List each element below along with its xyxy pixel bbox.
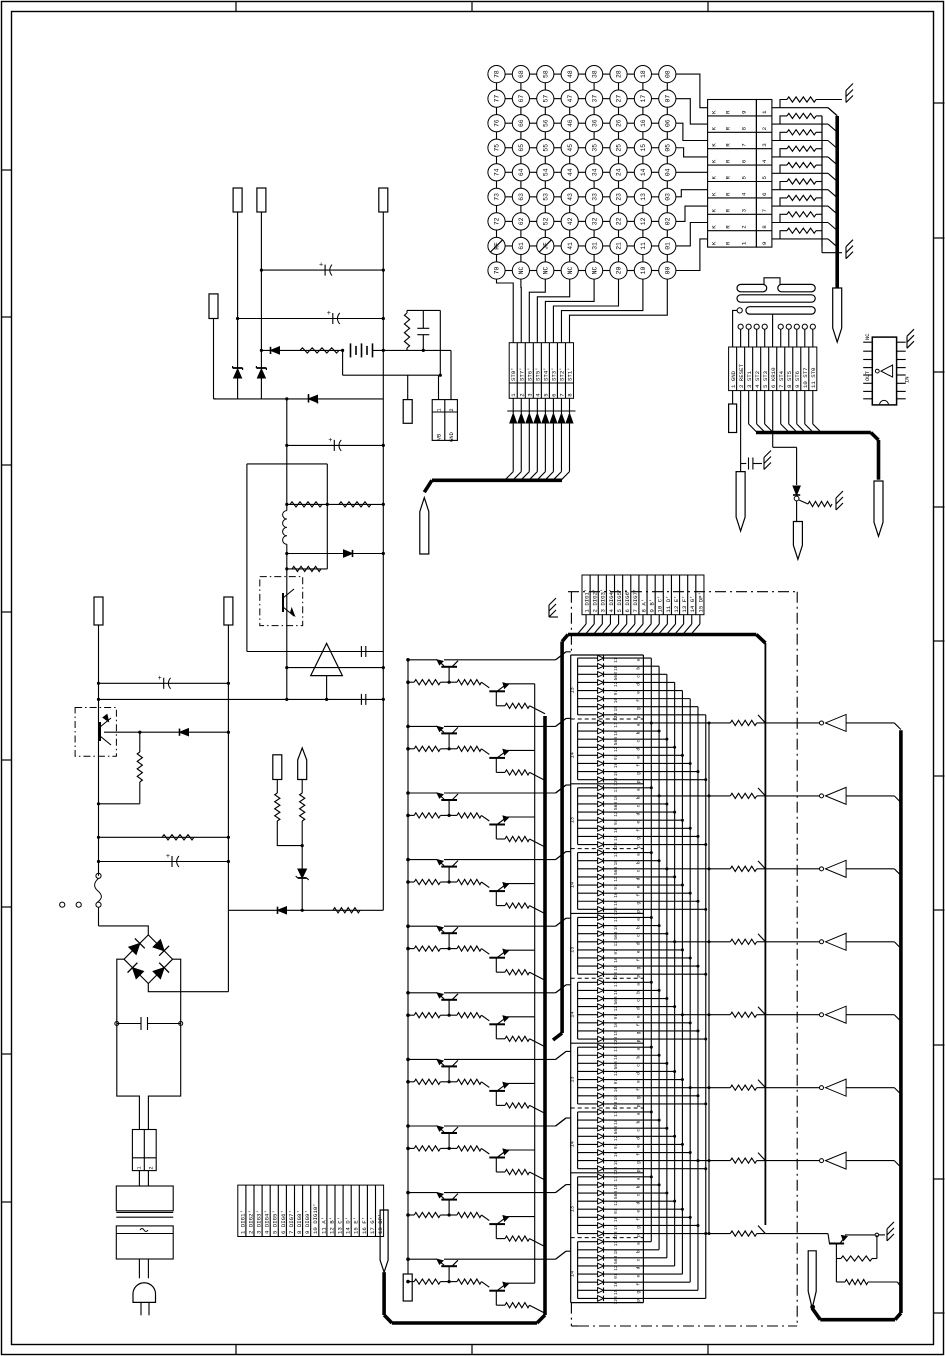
svg-text:18: 18 <box>613 730 619 736</box>
svg-text:18: 18 <box>613 989 619 995</box>
svg-text:K: K <box>711 225 718 229</box>
svg-text:36: 36 <box>591 119 598 127</box>
svg-text:R: R <box>725 208 732 212</box>
svg-text:14: 14 <box>640 168 647 176</box>
left rail P7 extension <box>227 910 229 991</box>
svg-text:68: 68 <box>518 70 525 78</box>
svg-text:b: b <box>636 1056 642 1059</box>
ground G2 <box>846 240 853 259</box>
key switch 72 r6c0 <box>488 213 505 230</box>
svg-text:12: 12 <box>613 1006 619 1012</box>
svg-text:67: 67 <box>518 95 525 103</box>
zener ZD2 <box>256 366 266 378</box>
svg-text:g: g <box>637 966 642 969</box>
connector pin P5 <box>403 375 412 423</box>
svg-text:10 DIG10': 10 DIG10' <box>312 1203 319 1234</box>
key switch 63 r5c1 <box>512 188 529 205</box>
svg-text:25: 25 <box>616 144 623 152</box>
driver column verticals <box>534 684 536 1283</box>
svg-text:a: a <box>637 1242 642 1245</box>
svg-text:GND: GND <box>449 432 455 442</box>
svg-text:97: 97 <box>613 1143 619 1149</box>
key switch 13 r5c6 <box>634 188 651 205</box>
svg-text:p: p <box>637 975 642 978</box>
svg-text:123: 123 <box>613 1166 619 1175</box>
resistor R24 digit row 5 <box>682 1007 819 1018</box>
svg-text:p: p <box>637 845 642 848</box>
transistor pair Q7 Q8 with resistors <box>406 785 566 847</box>
op-amp U1 buffer IC <box>863 333 910 405</box>
LED digit display 14 group 4 <box>570 849 708 916</box>
AC plug PL1 <box>133 1283 156 1316</box>
svg-text:11 D': 11 D' <box>665 595 672 612</box>
smoothing loop capacitor C8 <box>115 959 229 1129</box>
svg-text:f: f <box>636 764 642 767</box>
svg-text:568: 568 <box>613 1255 619 1264</box>
key switch 06 r2c7 <box>659 115 676 132</box>
connector ST strip <box>509 343 573 399</box>
svg-text:8 ST5: 8 ST5 <box>786 370 793 388</box>
svg-text:VB: VB <box>437 433 443 440</box>
key switch 48 r0c3 <box>561 66 578 83</box>
transistor Q1 regulator <box>260 577 303 626</box>
resistor R21 digit row 2 <box>659 788 819 799</box>
svg-text:+: + <box>166 853 170 861</box>
zener ZD1 <box>233 366 243 399</box>
svg-text:13: 13 <box>570 1206 576 1212</box>
svg-text:123: 123 <box>613 972 619 981</box>
power switch SW1 <box>60 873 149 935</box>
svg-text:R: R <box>725 143 732 147</box>
svg-text:15: 15 <box>640 144 647 152</box>
svg-text:54: 54 <box>543 168 550 176</box>
LED digit display 13 group 5 <box>570 913 708 980</box>
svg-text:c: c <box>637 1193 642 1196</box>
svg-text:35: 35 <box>591 144 598 152</box>
key switch 07 r1c7 <box>659 90 676 107</box>
bridge rectifier BR1 <box>124 935 173 984</box>
feedback box wire <box>247 464 327 652</box>
key switch 67 r1c1 <box>512 90 529 107</box>
svg-text:16: 16 <box>613 1152 619 1158</box>
svg-text:p: p <box>637 1104 642 1107</box>
main rail vertical <box>286 399 288 652</box>
key switch 33 r5c4 <box>586 188 603 205</box>
resistor R6 <box>97 732 142 805</box>
svg-text:p: p <box>637 715 642 718</box>
svg-text:e: e <box>637 1210 642 1213</box>
svg-text:p: p <box>637 1169 642 1172</box>
svg-text:18: 18 <box>613 1054 619 1060</box>
svg-text:e: e <box>637 1080 642 1083</box>
svg-text:55: 55 <box>543 144 550 152</box>
svg-text:568: 568 <box>613 931 619 940</box>
svg-text:28: 28 <box>616 70 623 78</box>
svg-text:04: 04 <box>665 168 672 176</box>
diode D5 resistor R8 <box>228 907 383 914</box>
svg-text:11: 11 <box>613 787 619 793</box>
diode D4 <box>104 729 230 736</box>
resistor R26 digit row 7 <box>698 1153 820 1164</box>
svg-text:f: f <box>636 1218 642 1221</box>
svg-text:+: + <box>327 310 331 318</box>
inverter U6 <box>820 1006 901 1023</box>
svg-text:18: 18 <box>613 1184 619 1190</box>
svg-text:b: b <box>636 1120 642 1123</box>
key switch 77 r1c0 <box>488 90 505 107</box>
svg-text:22: 22 <box>616 217 623 225</box>
svg-text:15: 15 <box>613 771 619 777</box>
key switch 43 r5c3 <box>561 188 578 205</box>
key switch 56 r2c2 <box>537 115 554 132</box>
LED digit display 13 group 3 <box>570 784 708 851</box>
svg-text:16: 16 <box>613 1022 619 1028</box>
key switch 66 r2c1 <box>512 115 529 132</box>
key switch 17 r1c6 <box>634 90 651 107</box>
svg-text:f: f <box>636 1153 642 1156</box>
svg-text:12: 12 <box>613 876 619 882</box>
svg-text:123: 123 <box>613 907 619 916</box>
inverter U4 <box>820 860 901 877</box>
svg-text:568: 568 <box>613 866 619 875</box>
svg-text:g: g <box>637 1161 642 1164</box>
svg-text:12: 12 <box>613 811 619 817</box>
svg-text:07: 07 <box>665 95 672 103</box>
svg-text:c: c <box>637 999 642 1002</box>
svg-text:16: 16 <box>613 1087 619 1093</box>
svg-text:d: d <box>636 1202 642 1205</box>
svg-text:NC: NC <box>864 333 871 340</box>
keyboard matrix wires <box>497 74 668 270</box>
svg-text:IN: IN <box>904 376 911 383</box>
svg-text:5: 5 <box>741 176 748 180</box>
svg-text:c: c <box>637 934 642 937</box>
svg-text:15: 15 <box>613 1160 619 1166</box>
svg-text:18: 18 <box>613 1249 619 1255</box>
key switch 65 r3c1 <box>512 139 529 156</box>
svg-text:15: 15 <box>613 1095 619 1101</box>
svg-text:63: 63 <box>518 193 525 201</box>
svg-text:15 DP': 15 DP' <box>697 592 704 612</box>
svg-text:64: 64 <box>518 168 525 176</box>
key switch 24 r4c5 <box>610 164 627 181</box>
svg-text:NC: NC <box>518 267 525 275</box>
svg-text:g: g <box>637 837 642 840</box>
capacitor C4 <box>285 437 385 451</box>
svg-text:15: 15 <box>613 835 619 841</box>
diode D2 wire <box>214 394 384 404</box>
LED digit display 14 group 6 <box>570 978 708 1045</box>
svg-text:123: 123 <box>613 777 619 786</box>
key switch 45 r3c3 <box>561 139 578 156</box>
connector pins top <box>233 188 388 910</box>
svg-text:K: K <box>711 192 718 196</box>
svg-text:75: 75 <box>494 144 501 152</box>
connector pin P8 resistor R9 <box>273 755 302 846</box>
svg-text:d: d <box>636 812 642 815</box>
svg-text:2 RESET: 2 RESET <box>738 364 745 388</box>
svg-text:10: 10 <box>640 267 647 275</box>
svg-text:+: + <box>158 675 162 683</box>
svg-text:123: 123 <box>613 842 619 851</box>
svg-text:15: 15 <box>613 965 619 971</box>
resistors R3 R4 <box>285 502 385 507</box>
svg-text:1: 1 <box>136 1166 142 1169</box>
svg-text:e: e <box>637 950 642 953</box>
svg-text:K: K <box>711 143 718 147</box>
svg-text:f: f <box>636 1283 642 1286</box>
svg-text:13: 13 <box>570 947 576 953</box>
fuse F1 <box>132 1130 156 1187</box>
svg-text:g: g <box>637 1291 642 1294</box>
svg-text:11: 11 <box>613 1046 619 1052</box>
svg-text:13: 13 <box>640 193 647 201</box>
connector CN3 VB GND <box>432 400 457 442</box>
svg-text:a: a <box>637 1112 642 1115</box>
svg-text:NC: NC <box>567 267 574 275</box>
svg-text:37: 37 <box>591 95 598 103</box>
svg-text:10 C': 10 C' <box>657 595 664 612</box>
svg-text:12: 12 <box>613 1135 619 1141</box>
svg-text:16: 16 <box>613 762 619 768</box>
svg-text:7: 7 <box>558 393 565 396</box>
svg-text:3 DIG3': 3 DIG3' <box>255 1210 262 1234</box>
bus vertical mid <box>764 643 766 1225</box>
svg-text:14: 14 <box>570 1141 576 1147</box>
key switch NC r8c3 <box>561 262 578 279</box>
jumper wire W2 <box>737 295 815 302</box>
svg-text:c: c <box>637 804 642 807</box>
svg-text:6: 6 <box>761 192 768 196</box>
svg-text:R: R <box>725 241 732 245</box>
transistor Q23 output <box>820 1233 886 1282</box>
svg-text:c: c <box>637 675 642 678</box>
diode D3 <box>285 550 385 557</box>
wire VB GND to CN3 <box>343 350 451 399</box>
svg-text:NC: NC <box>591 267 598 275</box>
svg-text:c: c <box>637 1129 642 1132</box>
key switch 04 r4c7 <box>659 164 676 181</box>
transistor pair Q15 Q16 with resistors <box>406 1051 566 1113</box>
svg-text:b: b <box>636 861 642 864</box>
svg-text:72: 72 <box>494 217 501 225</box>
LED digit display 13 group 1 <box>570 655 706 721</box>
svg-text:b: b <box>636 731 642 734</box>
svg-text:3: 3 <box>741 208 748 212</box>
svg-text:97: 97 <box>613 690 619 696</box>
svg-text:73: 73 <box>494 193 501 201</box>
svg-text:15: 15 <box>613 1289 619 1295</box>
svg-text:g: g <box>637 707 642 710</box>
wire box bottom <box>247 646 383 657</box>
transistor pair Q19 Q20 with resistors <box>406 1185 566 1247</box>
svg-text:4: 4 <box>761 159 768 163</box>
svg-text:d: d <box>636 748 642 751</box>
amplifier triangle A1 <box>285 643 385 699</box>
svg-text:16: 16 <box>613 1281 619 1287</box>
svg-text:568: 568 <box>613 737 619 746</box>
svg-text:R: R <box>725 192 732 196</box>
svg-text:15: 15 <box>613 900 619 906</box>
key switch 62 r6c1 <box>512 213 529 230</box>
svg-text:g: g <box>637 902 642 905</box>
key switch 36 r2c4 <box>586 115 603 132</box>
zener ZD3 <box>296 846 309 911</box>
svg-text:06: 06 <box>665 119 672 127</box>
svg-text:76: 76 <box>494 119 501 127</box>
svg-text:61: 61 <box>518 242 525 250</box>
svg-text:2: 2 <box>761 126 768 130</box>
thick bus display left <box>553 642 562 1041</box>
svg-text:ST2': ST2' <box>558 367 565 381</box>
svg-text:K: K <box>711 176 718 180</box>
svg-text:e: e <box>637 1015 642 1018</box>
spark gap arrows <box>507 398 575 471</box>
svg-text:e: e <box>637 756 642 759</box>
svg-text:123: 123 <box>613 712 619 721</box>
resistor R28 <box>836 1279 901 1287</box>
transistor pair Q11 Q12 with resistors <box>406 918 566 980</box>
svg-text:7 DIG7': 7 DIG7' <box>288 1210 295 1234</box>
stubs driver to display <box>556 652 571 1259</box>
svg-text:13: 13 <box>570 687 576 693</box>
svg-text:d: d <box>636 683 642 686</box>
svg-text:34: 34 <box>591 168 598 176</box>
LED digit display 14 group 10 <box>570 1238 706 1305</box>
svg-text:65: 65 <box>518 144 525 152</box>
svg-text:2: 2 <box>518 393 525 397</box>
transformer T1 <box>116 1186 173 1278</box>
svg-text:f: f <box>636 894 642 897</box>
key switch 02 r6c7 <box>659 213 676 230</box>
thick bus driver to display <box>384 716 545 1323</box>
svg-text:c: c <box>637 869 642 872</box>
key switch 16 r2c6 <box>634 115 651 132</box>
ground G7 <box>887 1222 894 1241</box>
svg-text:b: b <box>636 991 642 994</box>
svg-text:6 DIG6': 6 DIG6' <box>280 1210 287 1234</box>
svg-text:R: R <box>725 176 732 180</box>
resistor R27 digit row 8 <box>706 1226 820 1237</box>
key switch 10 r8c6 <box>634 262 651 279</box>
svg-text:K: K <box>711 241 718 245</box>
svg-text:1: 1 <box>510 393 517 397</box>
svg-text:14 G': 14 G' <box>689 595 696 612</box>
svg-text:66: 66 <box>518 119 525 127</box>
svg-text:18: 18 <box>613 1119 619 1125</box>
svg-text:f: f <box>636 958 642 961</box>
key switch 41 r7c3 <box>561 237 578 254</box>
key switch 11 r7c6 <box>634 237 651 254</box>
key switch RF r7c0 <box>488 237 505 254</box>
connector pin J-KB <box>874 481 883 536</box>
key switch 25 r3c5 <box>610 139 627 156</box>
svg-text:c: c <box>637 1258 642 1261</box>
svg-text:56: 56 <box>543 119 550 127</box>
driver column bus <box>407 660 409 1274</box>
svg-text:p: p <box>637 1299 642 1302</box>
svg-text:12 E': 12 E' <box>673 595 680 612</box>
key switch 05 r3c7 <box>659 139 676 156</box>
svg-text:16: 16 <box>613 698 619 704</box>
transistor pair Q21 Q22 with resistors <box>406 1251 566 1313</box>
capacitor C2 <box>236 310 385 324</box>
svg-text:12: 12 <box>613 1200 619 1206</box>
svg-text:15: 15 <box>613 1030 619 1036</box>
svg-text:46: 46 <box>567 119 574 127</box>
resistor R2 capacitor C3 parallel <box>404 310 440 375</box>
resistor R7 <box>97 835 230 840</box>
key switch 35 r3c4 <box>586 139 603 156</box>
svg-text:ST5': ST5' <box>534 367 541 381</box>
thick bus ST to pin <box>424 472 569 493</box>
key switch 08 r0c7 <box>659 66 676 83</box>
connector pin J-DISP <box>808 1251 816 1310</box>
capacitor C7 <box>97 853 230 867</box>
svg-text:14: 14 <box>570 1271 576 1277</box>
wires matrix columns to KR box <box>676 74 708 270</box>
svg-text:41: 41 <box>567 242 574 250</box>
wires matrix rows to ST connector <box>497 279 668 343</box>
svg-text:21: 21 <box>616 242 623 250</box>
svg-text:4 ST2: 4 ST2 <box>754 370 761 388</box>
svg-text:9 B': 9 B' <box>649 599 656 613</box>
connector CN2 11pin <box>729 347 818 391</box>
svg-text:5 DIG5': 5 DIG5' <box>616 589 623 613</box>
svg-text:p: p <box>637 1039 642 1042</box>
svg-text:8: 8 <box>761 225 768 229</box>
svg-text:14: 14 <box>570 1012 576 1018</box>
jumper wires W1 <box>737 278 815 292</box>
svg-text:18: 18 <box>613 665 619 671</box>
display block outline <box>571 655 644 1303</box>
svg-text:RF: RF <box>494 242 501 250</box>
svg-text:2 DIG2': 2 DIG2' <box>247 1210 254 1234</box>
svg-text:e: e <box>637 885 642 888</box>
svg-text:13 C': 13 C' <box>336 1217 343 1234</box>
svg-text:4 DIG4': 4 DIG4' <box>608 589 615 613</box>
svg-text:43: 43 <box>567 193 574 201</box>
svg-text:74: 74 <box>494 168 501 176</box>
jumper wire W3 <box>737 307 815 314</box>
svg-text:5: 5 <box>761 176 768 180</box>
key switch 55 r3c2 <box>537 139 554 156</box>
svg-text:11: 11 <box>613 1241 619 1247</box>
capacitor C-RESET and pin <box>741 391 762 472</box>
key switch 58 r0c2 <box>537 66 554 83</box>
svg-text:18: 18 <box>613 795 619 801</box>
resistor R22 digit row 3 <box>667 861 820 872</box>
svg-text:568: 568 <box>613 802 619 811</box>
svg-text:568: 568 <box>613 1061 619 1070</box>
svg-text:7 DIG7': 7 DIG7' <box>632 589 639 613</box>
svg-text:e: e <box>637 1145 642 1148</box>
svg-text:568: 568 <box>613 996 619 1005</box>
svg-text:8 DIG8': 8 DIG8' <box>296 1210 303 1234</box>
resistor R25 digit row 6 <box>690 1080 819 1091</box>
svg-text:12: 12 <box>613 1070 619 1076</box>
svg-text:12: 12 <box>613 1265 619 1271</box>
terminal circles CN2 <box>733 310 816 347</box>
svg-text:13 F': 13 F' <box>681 595 688 612</box>
ground G1 <box>846 84 853 103</box>
key switch 22 r6c5 <box>610 213 627 230</box>
svg-text:9 ST6: 9 ST6 <box>794 370 801 388</box>
key switch 75 r3c0 <box>488 139 505 156</box>
key switch 20 r8c5 <box>610 262 627 279</box>
svg-text:2: 2 <box>449 408 455 411</box>
svg-text:03: 03 <box>665 193 672 201</box>
